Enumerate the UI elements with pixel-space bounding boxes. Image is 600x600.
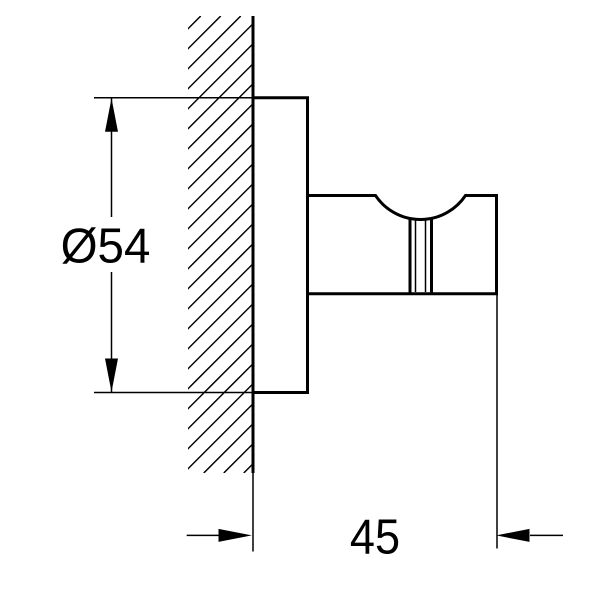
hook neck inner right line bbox=[425, 220, 427, 293]
dim Ø54 bottom arrow bbox=[105, 359, 118, 393]
dim 45 left dimension line bbox=[187, 534, 220, 536]
wall line bbox=[252, 16, 255, 473]
dim 45 right arrow bbox=[496, 529, 529, 542]
dim Ø54 dimension line upper segment bbox=[111, 98, 113, 217]
wall hatching bbox=[0, 16, 600, 473]
dim 45 left extension line (below wall) bbox=[252, 473, 254, 552]
dim 45 right dimension line bbox=[530, 534, 563, 536]
hook body outline bbox=[308, 196, 497, 294]
hook neck outer left line bbox=[409, 218, 412, 294]
hook neck inner left line bbox=[415, 220, 417, 293]
svg-text:45: 45 bbox=[350, 509, 400, 564]
hook neck outer right line bbox=[430, 218, 433, 294]
dim 45 right extension line bbox=[496, 294, 498, 549]
dim Ø54 top arrow bbox=[105, 98, 118, 132]
mounting plate bbox=[253, 98, 308, 393]
svg-text:Ø54: Ø54 bbox=[61, 219, 151, 274]
dim Ø54 bottom extension line bbox=[94, 392, 253, 394]
dim Ø54 dimension line lower segment bbox=[111, 272, 113, 393]
dim 45 left arrow bbox=[219, 529, 252, 542]
dim Ø54 top extension line bbox=[94, 97, 253, 99]
